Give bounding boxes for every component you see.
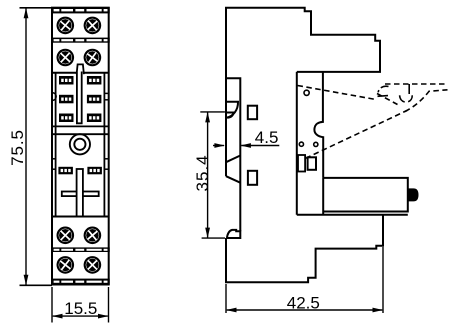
bottom screw zone xyxy=(51,226,110,285)
zone top line xyxy=(52,72,77,74)
svg-text:75.5: 75.5 xyxy=(8,129,27,166)
handle T rib xyxy=(408,84,410,94)
DIN channel inner wall xyxy=(226,78,240,231)
terminal strip bar 4 (bottom) xyxy=(51,279,110,285)
terminal strip bar 1 (top) xyxy=(51,7,110,14)
block hole circle xyxy=(304,90,309,95)
screw terminals row 2 xyxy=(56,48,101,66)
inner side wall left xyxy=(55,73,57,217)
contact 3b xyxy=(87,114,102,123)
terminal strip bar 2 xyxy=(51,38,110,43)
screw terminal A1 left xyxy=(56,16,74,34)
cross arm right xyxy=(83,192,99,197)
dimension 75.5 xyxy=(8,8,52,286)
dimension 42.5 xyxy=(226,247,383,313)
contact 1a xyxy=(59,76,74,85)
clip hook curl xyxy=(378,86,388,92)
screw terminal B2 right xyxy=(83,256,101,274)
screw terminal A2 left xyxy=(56,48,74,66)
block pin circles xyxy=(299,142,303,146)
dimension 15.5 xyxy=(52,287,109,323)
handle top edge xyxy=(385,83,448,85)
block bottom rect A xyxy=(298,155,305,172)
main profile outline xyxy=(226,8,380,176)
right channel slot ticks xyxy=(104,92,108,94)
DIN channel bottom with hook xyxy=(226,230,240,238)
center block right edge with finger notch xyxy=(314,72,323,178)
svg-text:15.5: 15.5 xyxy=(64,299,97,318)
screw terminal B1 right xyxy=(83,226,101,244)
center block left edge xyxy=(296,72,298,215)
left channel lower ticks xyxy=(52,158,56,160)
clip edge lower xyxy=(306,111,408,159)
middle contact zone xyxy=(52,64,109,216)
right channel lower ticks xyxy=(104,158,108,160)
separator line 1 xyxy=(52,125,109,127)
screw terminal B2 left xyxy=(56,256,74,274)
contact 2b xyxy=(87,95,102,104)
separator line 2 xyxy=(52,133,109,135)
ejector knob (black) xyxy=(408,188,419,201)
clip grip hole xyxy=(400,95,413,102)
block bottom rect B xyxy=(308,157,316,170)
screw terminal A2 right xyxy=(83,49,101,67)
dimension 35.4 xyxy=(193,112,225,238)
terminal strip bar 3 xyxy=(51,247,110,252)
svg-text:35.4: 35.4 xyxy=(193,154,212,191)
screw terminal B1 left xyxy=(56,226,74,244)
center hole outer xyxy=(70,134,90,154)
contact 1b xyxy=(87,76,102,85)
small rect lower (screw hole) xyxy=(248,171,257,185)
clip curve to handle xyxy=(405,90,448,112)
clip edge upper xyxy=(298,86,377,100)
screw terminal A1 right xyxy=(83,16,101,34)
DIN top claw xyxy=(226,102,238,118)
lower center bar xyxy=(77,169,83,217)
small contact 4b xyxy=(87,167,102,175)
center tab between row2 screws xyxy=(77,64,84,74)
small contact 4a xyxy=(58,167,73,175)
screw terminals row 1 xyxy=(56,16,101,34)
small rect upper (screw hole) xyxy=(248,106,257,120)
phantom relay clip (dashed) xyxy=(298,84,448,158)
left channel bump xyxy=(53,93,56,101)
svg-text:4.5: 4.5 xyxy=(255,128,279,147)
relay ejector box xyxy=(323,178,408,212)
svg-text:42.5: 42.5 xyxy=(287,294,320,313)
clip cross edge xyxy=(377,94,398,105)
DIN bottom wedge xyxy=(226,156,240,183)
center bar upper xyxy=(77,72,82,124)
bottom plate line xyxy=(297,214,408,216)
lower profile outline xyxy=(226,215,383,283)
contact 3a xyxy=(59,114,74,123)
inner side wall right xyxy=(103,73,105,217)
cross arm left xyxy=(62,192,77,197)
contact 2a xyxy=(59,95,74,104)
center hole inner xyxy=(74,139,85,150)
dimension 4.5 xyxy=(213,128,279,148)
zone bottom line xyxy=(52,216,109,218)
front view outer body xyxy=(52,8,109,285)
side view xyxy=(226,8,419,283)
